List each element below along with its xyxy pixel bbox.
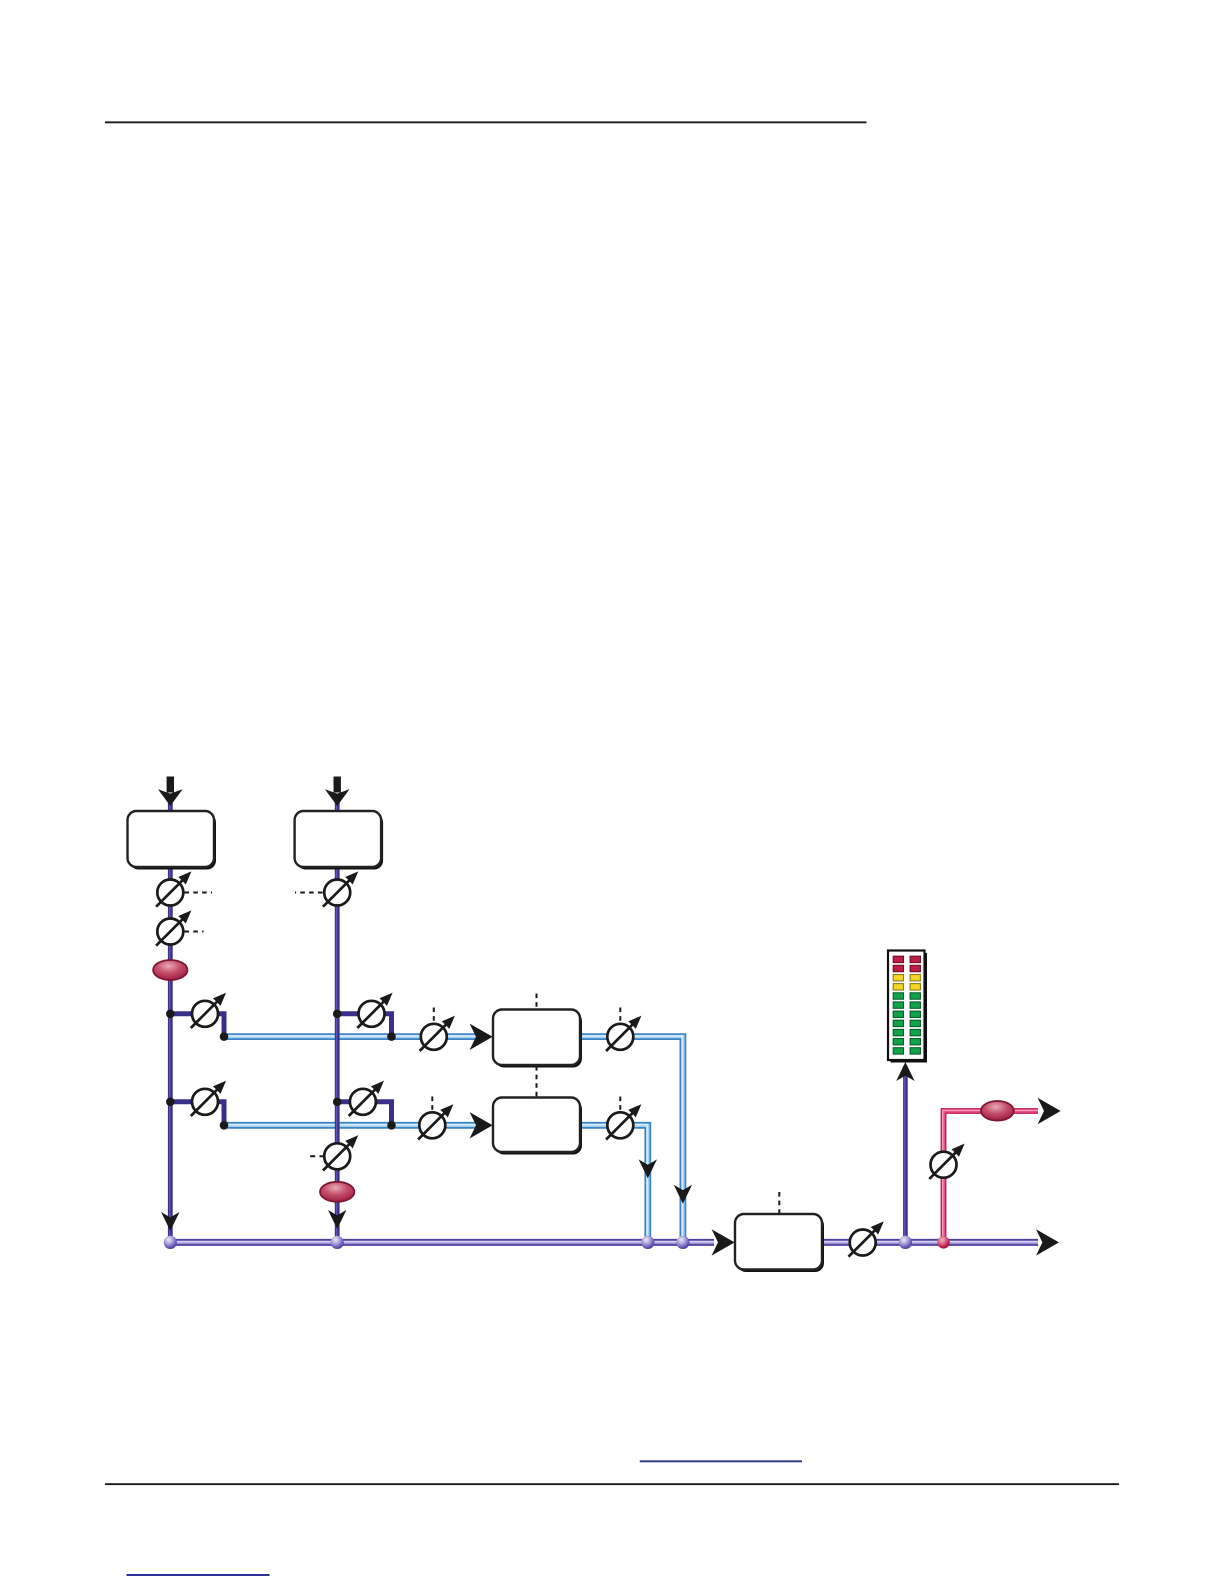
gain pot A row1 branch <box>191 994 225 1028</box>
header rule <box>105 121 867 123</box>
junction dot row1 mid bend <box>387 1032 396 1041</box>
junction dot row2 left bend <box>220 1121 229 1130</box>
wire: dashed stub above gain R1b <box>619 1008 621 1023</box>
arrow: column B down onto bus <box>328 1210 346 1229</box>
box U4 <box>493 1098 582 1155</box>
wire: dashed stub right of gain A1 <box>185 892 213 894</box>
gain pot A row2 branch <box>191 1082 225 1116</box>
node sphere bus meter tap <box>899 1236 912 1249</box>
wire: dashed control line above box U5 <box>778 1192 780 1214</box>
level meter cells <box>893 956 920 1054</box>
mute ellipse column A <box>153 960 187 980</box>
mute ellipse pink output <box>981 1101 1014 1121</box>
wire: pink line from bus node up and right to output <box>943 1110 1038 1242</box>
wire: light-blue mix bus row2 left segment <box>224 1121 481 1129</box>
junction dot column B row2 <box>333 1098 342 1107</box>
node sphere bus pink tap <box>937 1236 949 1248</box>
box U3 <box>493 1010 582 1068</box>
junction dot column A row2 <box>166 1098 175 1107</box>
wire: dashed stub left of gain B4 <box>307 1155 325 1157</box>
gain pot A1 <box>156 873 190 907</box>
footer link underline center <box>640 1460 802 1462</box>
footer link underline bottom-left <box>127 1574 270 1576</box>
gain pot B1 <box>323 873 357 907</box>
wire: dashed control line between box U3 and box U4 <box>536 1066 538 1097</box>
arrow: into box U3 <box>470 1024 493 1050</box>
wire: dashed stub left of gain B1 <box>295 892 323 894</box>
wire: light-blue mix bus row2 right segment with drop to output bus <box>580 1125 648 1242</box>
wire: dashed stub above gain R2a <box>431 1097 433 1112</box>
junction dot column B row1 <box>333 1010 342 1019</box>
junction dot column A row1 <box>166 1010 175 1019</box>
arrow: into box U5 <box>712 1229 735 1255</box>
node sphere bus row2 <box>641 1236 654 1249</box>
wire: purple output bus left segment <box>170 1238 714 1246</box>
wire: dashed stub above gain R2b <box>619 1097 621 1112</box>
arrow: row1 drop down <box>674 1185 692 1204</box>
gain pot B row1 branch <box>357 994 391 1028</box>
junction dot row1 left bend <box>220 1032 229 1041</box>
footer rule <box>105 1483 1119 1485</box>
arrow: pink output end <box>1038 1098 1061 1124</box>
box U5 <box>735 1214 824 1272</box>
box U1 <box>128 811 217 870</box>
wire: column A branch to row1 <box>170 1014 224 1037</box>
arrow: top input into box U2 <box>325 777 350 807</box>
arrow: into box U4 <box>470 1112 493 1138</box>
node sphere bus row1 <box>676 1236 689 1249</box>
wire: column B branch to row1 <box>337 1014 391 1037</box>
wire: column B branch to row2 <box>337 1102 391 1126</box>
wire: dashed stub above gain R1a <box>433 1008 435 1023</box>
box U2 <box>295 811 384 870</box>
gain pot row2 post-box <box>606 1106 640 1140</box>
gain pot A2 <box>156 912 190 946</box>
arrow: output bus right end <box>1036 1229 1059 1255</box>
wire: light-blue mix bus row1 right segment with drop to output bus <box>580 1036 683 1242</box>
wire: navy line from bus up to level meter <box>902 1066 907 1242</box>
node sphere bus A <box>164 1236 177 1249</box>
arrow: row2 drop down <box>639 1159 657 1178</box>
wire: navy column A vertical <box>167 800 172 1242</box>
gain pot row1 post-box <box>606 1017 640 1051</box>
wire: column A branch to row2 <box>170 1102 224 1126</box>
level meter <box>888 951 927 1063</box>
wire: navy column B vertical <box>334 800 339 1242</box>
gain pot row2 pre-box <box>418 1106 452 1140</box>
gain pot on pink branch <box>929 1145 963 1179</box>
wire: dashed stub right of gain A2 <box>185 931 204 933</box>
wire: dashed control line above box U3 <box>536 994 538 1010</box>
node sphere bus B <box>331 1236 344 1249</box>
gain pot column B lower <box>323 1137 357 1171</box>
arrow: column A down onto bus <box>161 1212 179 1231</box>
gain pot B row2 branch <box>349 1082 383 1116</box>
mute ellipse column B <box>320 1182 354 1202</box>
gain pot on output bus <box>849 1223 883 1257</box>
wire: purple output bus right segment <box>822 1238 1038 1246</box>
gain pot row1 pre-box <box>420 1017 454 1051</box>
wire: light-blue mix bus row1 left segment <box>224 1033 481 1040</box>
arrow: into level meter <box>896 1062 914 1081</box>
arrow: top input into box U1 <box>158 777 183 807</box>
junction dot row2 mid bend <box>387 1121 396 1130</box>
